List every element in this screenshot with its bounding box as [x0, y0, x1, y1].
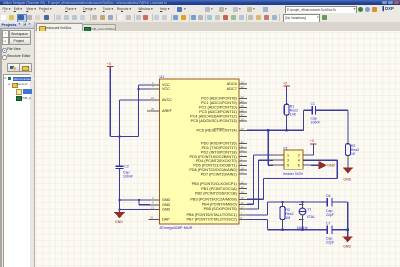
inactive tab — [82, 24, 116, 33]
wire RESET net — [247, 110, 304, 165]
svg-text:ADC6: ADC6 — [227, 82, 237, 86]
pin AREF 20 — [147, 107, 173, 113]
tree box — [3, 74, 30, 267]
wire XTAL1 — [247, 202, 268, 215]
power +5 (R1) — [283, 82, 290, 89]
junction AVCC rail — [118, 135, 120, 137]
svg-text:U1: U1 — [160, 75, 165, 79]
svg-text:22pF: 22pF — [326, 213, 334, 217]
panel header — [0, 22, 34, 29]
capacitor C6 22pF — [326, 194, 334, 217]
svg-text:PB7 (PCINT7/XTAL2/TOSC2): PB7 (PCINT7/XTAL2/TOSC2) — [187, 218, 238, 222]
svg-text:VCC: VCC — [162, 87, 170, 91]
svg-text:PB1 (PCINT1/OC1A): PB1 (PCINT1/OC1A) — [201, 187, 237, 191]
svg-text:GND: GND — [162, 208, 171, 212]
svg-text:15: 15 — [241, 196, 245, 200]
capacitor C1 100nF — [304, 102, 348, 124]
svg-text:PB5 (SCK/PCINT5): PB5 (SCK/PCINT5) — [204, 207, 238, 211]
svg-text:23: 23 — [241, 95, 245, 99]
ground symbol (under R2) — [343, 167, 353, 182]
document tab bar — [35, 22, 400, 32]
menu bar — [0, 5, 400, 14]
svg-text:22: 22 — [241, 85, 245, 89]
svg-text:PB2 (PCINT2/SS/OC1B): PB2 (PCINT2/SS/OC1B) — [195, 192, 238, 196]
svg-text:1K: 1K — [351, 152, 356, 156]
pin GND 21 — [150, 205, 171, 211]
header P1 box — [273, 146, 311, 176]
svg-text:16: 16 — [241, 201, 245, 205]
svg-text:PC4 (ADC4/SDA/PCINT12): PC4 (ADC4/SDA/PCINT12) — [190, 115, 237, 119]
svg-text:PD5 (PCINT21/OC0B/T1): PD5 (PCINT21/OC0B/T1) — [193, 164, 237, 168]
svg-text:1: 1 — [287, 153, 289, 157]
svg-text:+5: +5 — [107, 62, 111, 66]
wire C1 to R2 — [347, 110, 349, 143]
svg-text:2: 2 — [298, 153, 300, 157]
svg-text:Y1: Y1 — [307, 207, 311, 211]
svg-text:PD3 (PCINT19/OC2B/INT1): PD3 (PCINT19/OC2B/INT1) — [190, 155, 238, 159]
left panel — [0, 22, 35, 267]
svg-text:13: 13 — [241, 185, 245, 189]
row3: schdoc selected blue — [16, 89, 22, 95]
svg-text:3: 3 — [287, 159, 289, 163]
svg-text:10K: 10K — [290, 112, 297, 116]
radio File View — [2, 48, 7, 53]
wire MISO to header pin1 — [247, 155, 273, 204]
pin VCC 6 — [150, 81, 170, 87]
svg-text:28: 28 — [241, 118, 245, 122]
svg-text:16MHz: 16MHz — [297, 226, 308, 230]
svg-text:27: 27 — [241, 113, 245, 117]
wire SCK to header pin3 — [247, 160, 273, 209]
svg-text:100nF: 100nF — [123, 175, 133, 179]
ground symbol (left) — [114, 210, 125, 224]
power +5 (header pin2) — [310, 139, 317, 155]
svg-text:AVCC: AVCC — [162, 98, 172, 102]
svg-text:GND: GND — [343, 244, 351, 248]
svg-text:32: 32 — [241, 149, 245, 153]
junction GND pin5 — [138, 199, 140, 201]
svg-text:ATmega328P-MUR: ATmega328P-MUR — [160, 226, 193, 230]
pin DAP 33 — [149, 215, 170, 221]
svg-text:11: 11 — [241, 171, 244, 175]
svg-text:GND: GND — [162, 203, 171, 207]
toolbar — [0, 13, 400, 23]
wire +5 down — [109, 69, 111, 137]
capacitor C7 22pF — [326, 221, 334, 244]
svg-text:25: 25 — [241, 104, 245, 108]
svg-text:18: 18 — [151, 96, 155, 100]
svg-text:GND: GND — [162, 198, 171, 202]
svg-text:21: 21 — [151, 205, 155, 209]
active tab — [36, 23, 83, 32]
wire XTAL2 — [247, 219, 268, 229]
junction RESET/R1 — [286, 129, 288, 131]
workspace row — [2, 30, 9, 38]
svg-text:12: 12 — [241, 180, 245, 184]
svg-text:+5: +5 — [310, 139, 314, 143]
svg-text:10: 10 — [241, 166, 245, 170]
svg-text:100nF: 100nF — [311, 121, 321, 125]
radio Structure Editor — [2, 55, 7, 60]
right-side pin names of U1 — [187, 82, 238, 221]
svg-text:PC1 (ADC1/PCINT9): PC1 (ADC1/PCINT9) — [201, 101, 237, 105]
right-side pins of U1 — [239, 84, 247, 219]
wire to VCC junction — [110, 85, 150, 137]
svg-text:ADC7: ADC7 — [227, 87, 237, 91]
wire C2 to GND rail — [120, 169, 151, 210]
two icon buttons — [7, 63, 20, 72]
resistor R3 1M — [280, 202, 294, 230]
svg-text:14: 14 — [241, 190, 245, 194]
svg-text:26: 26 — [241, 109, 245, 113]
svg-text:C7: C7 — [326, 221, 331, 225]
svg-text:XTAL: XTAL — [307, 215, 316, 219]
svg-text:PC5 (ADC5/SCL/PCINT13): PC5 (ADC5/SCL/PCINT13) — [191, 119, 238, 123]
svg-text:Header 3X2H: Header 3X2H — [283, 172, 304, 176]
svg-text:24: 24 — [241, 100, 245, 104]
svg-text:PD1 (TXD/PCINT17): PD1 (TXD/PCINT17) — [202, 146, 238, 150]
ground power port (header pin6) — [311, 161, 336, 169]
svg-text:PC3 (ADC3/PCINT11): PC3 (ADC3/PCINT11) — [199, 110, 237, 114]
ground symbol (crystal) — [343, 230, 353, 249]
svg-text:PD4 (PCINT20/XCK/T0): PD4 (PCINT20/XCK/T0) — [196, 159, 238, 163]
svg-text:PD2 (INT0/PCINT18): PD2 (INT0/PCINT18) — [201, 150, 238, 154]
svg-text:19: 19 — [241, 81, 245, 85]
right-side pin numbers of U1 — [241, 81, 245, 220]
junction VCC — [137, 88, 139, 90]
svg-text:GND: GND — [327, 164, 335, 168]
svg-text:5: 5 — [287, 164, 289, 168]
capacitor C2 100nF — [115, 165, 133, 179]
svg-text:1M: 1M — [285, 216, 290, 220]
junction GND rail — [118, 199, 120, 201]
svg-text:+5: +5 — [283, 82, 287, 86]
svg-text:3: 3 — [152, 196, 154, 200]
svg-text:PB0 (PCINT0/CLKO/ICP1): PB0 (PCINT0/CLKO/ICP1) — [192, 182, 238, 186]
svg-text:PC2 (ADC2/PCINT10): PC2 (ADC2/PCINT10) — [199, 106, 238, 110]
svg-text:PD0 (RXD/PCINT16): PD0 (RXD/PCINT16) — [201, 142, 237, 146]
svg-text:GND: GND — [343, 178, 351, 182]
junction RESET/header — [267, 129, 269, 131]
row2: source documents — [8, 83, 10, 86]
svg-text:C1: C1 — [311, 102, 316, 106]
IC U1 ATmega328P-MUR body — [159, 75, 239, 230]
pin GND 5 — [150, 201, 171, 207]
wire AVCC — [120, 100, 151, 166]
svg-text:P1: P1 — [284, 146, 288, 150]
right portion of menu row: quick icons + path combo + DXP — [0, 5, 400, 13]
pin GND 3 — [150, 196, 171, 202]
svg-text:PB3 (PCINT3/OC2A/MOSI): PB3 (PCINT3/OC2A/MOSI) — [190, 197, 237, 201]
junction GND corner — [118, 208, 120, 210]
pin AVCC 18 — [150, 96, 172, 102]
svg-text:PC6 (RESET/PCINT14): PC6 (RESET/PCINT14) — [196, 128, 237, 132]
svg-text:29: 29 — [241, 127, 245, 131]
svg-text:20: 20 — [151, 107, 155, 111]
resistor R1 10K — [284, 88, 298, 130]
svg-text:PD7 (PCINT23/AIN1): PD7 (PCINT23/AIN1) — [201, 172, 238, 176]
svg-text:GND: GND — [115, 220, 123, 224]
title bar — [0, 0, 400, 5]
svg-text:DAP: DAP — [162, 218, 170, 222]
crystal bottom rail — [268, 202, 348, 230]
project row — [2, 37, 9, 45]
svg-text:33: 33 — [150, 215, 154, 219]
svg-text:17: 17 — [241, 206, 245, 210]
pin VCC 4 — [150, 85, 170, 91]
svg-text:AREF: AREF — [162, 109, 173, 113]
svg-text:PC0 (ADC0/PCINT8): PC0 (ADC0/PCINT8) — [201, 97, 237, 101]
svg-text:6: 6 — [298, 164, 300, 168]
row1: project selected — [4, 77, 6, 80]
svg-text:4: 4 — [298, 159, 300, 163]
junction crystal rails — [281, 201, 348, 231]
svg-text:30: 30 — [241, 140, 245, 144]
svg-text:C2: C2 — [124, 165, 129, 169]
svg-text:PB6 (PCINT6/XTAL1/TOSC1): PB6 (PCINT6/XTAL1/TOSC1) — [187, 213, 238, 217]
svg-text:5: 5 — [152, 201, 154, 205]
svg-text:C6: C6 — [326, 194, 331, 198]
resistor R2 1K — [346, 144, 360, 167]
power +5 (left) — [107, 62, 114, 69]
svg-text:PB4 (PCINT4/MISO): PB4 (PCINT4/MISO) — [202, 202, 238, 206]
svg-text:PD6 (PCINT22/OC0A/AIN0): PD6 (PCINT22/OC0A/AIN0) — [189, 168, 237, 172]
svg-text:22pF: 22pF — [326, 240, 334, 244]
crystal Y1 XTAL — [297, 202, 316, 230]
wire MOSI to header pin4 — [247, 160, 337, 199]
svg-text:31: 31 — [241, 144, 245, 148]
crystal top rail — [268, 201, 348, 203]
row4: pcbdoc — [16, 96, 22, 102]
